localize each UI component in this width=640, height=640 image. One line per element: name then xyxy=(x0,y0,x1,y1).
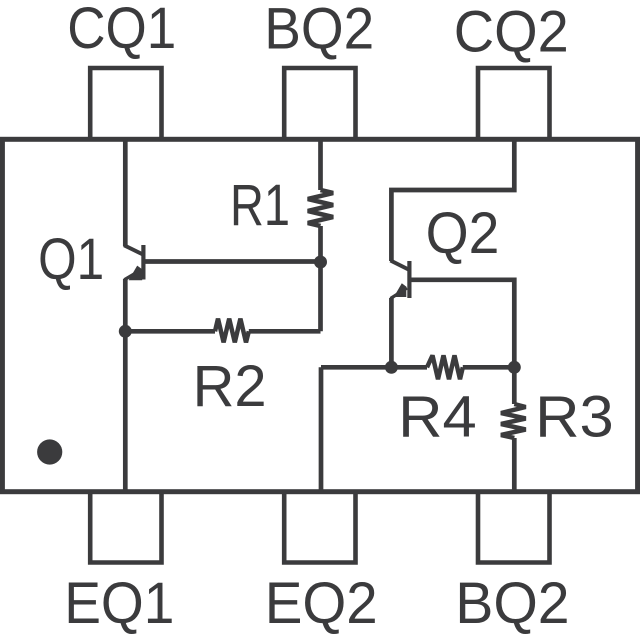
svg-text:CQ2: CQ2 xyxy=(454,0,569,65)
svg-text:Q1: Q1 xyxy=(38,227,104,292)
svg-text:Q2: Q2 xyxy=(426,201,500,266)
svg-text:R1: R1 xyxy=(230,173,290,238)
svg-text:BQ2: BQ2 xyxy=(264,0,374,61)
svg-text:R2: R2 xyxy=(193,354,267,419)
svg-text:R4: R4 xyxy=(398,385,477,450)
svg-text:R3: R3 xyxy=(535,385,614,450)
svg-text:CQ1: CQ1 xyxy=(67,0,176,61)
svg-text:EQ1: EQ1 xyxy=(64,571,174,636)
svg-text:EQ2: EQ2 xyxy=(265,571,378,636)
svg-text:BQ2: BQ2 xyxy=(455,571,569,636)
